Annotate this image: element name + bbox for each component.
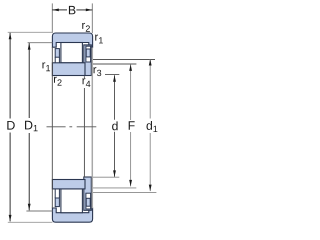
arrow d1 top [149,59,152,66]
label B [69,6,76,14]
label d [112,121,117,130]
label r2 (bottom left) [54,77,62,86]
label D1 [25,121,38,131]
bottom inner ring band [52,180,85,189]
extension line D top [8,31,53,33]
label r3 [94,67,102,76]
label r1 (top right) [95,35,103,44]
dimension line B [52,9,67,11]
extension line d bottom [93,176,119,178]
arrow D top [9,33,12,40]
bottom washer edge drop line left [54,189,56,198]
arrow F bottom [129,180,132,187]
extension line d top [105,74,119,76]
side face extension line left [51,47,53,208]
outer right face extension line [91,48,93,209]
extension line B left [51,3,53,33]
top bearing section [52,33,92,76]
label r4 [83,78,91,87]
bottom thrust collar column [84,177,92,210]
bottom outer ring with two flanges [52,208,92,222]
arrow B right [86,9,93,12]
extension line F top [93,63,136,65]
extension line d1 bottom [93,191,156,193]
dimension line d [114,75,116,120]
arrow F top [129,64,132,71]
bottom loose flange washer [55,198,59,207]
dimension line F [130,64,132,120]
arrow d1 bottom [149,185,152,192]
dimension line D1 [28,43,30,118]
extension line D1 bottom [26,210,52,212]
label D [7,121,14,130]
dimension line D [9,33,11,119]
extension line D bottom [8,221,53,223]
label d1 [147,121,158,132]
inner ring right face extension line [83,76,85,78]
bottom collar cavity [86,193,91,209]
label r1 (left) [42,62,50,71]
arrow D1 bottom [28,204,31,211]
centerline [47,126,66,128]
extension line d1 top [93,59,155,61]
arrow d top [113,75,116,82]
bottom washer edge drop line right [58,189,60,198]
arrow D1 top [28,43,31,50]
label F [129,121,135,129]
dimension line d1 [149,59,151,119]
extension line F bottom [93,187,136,189]
extension line D1 top [28,42,53,44]
arrow D bottom [9,215,12,222]
arrow B left [52,9,59,12]
bottom roller [61,189,83,213]
arrow d bottom [113,170,116,177]
bottom collar chip [86,198,90,206]
extension line B right [91,3,93,33]
label r2 (top) [82,23,90,32]
